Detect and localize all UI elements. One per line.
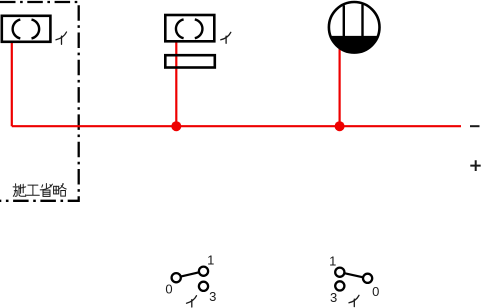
svg-text:1: 1: [207, 252, 214, 267]
kanji 工: [27, 185, 40, 195]
label 施工省略 (hand-drawn kanji): [13, 184, 66, 197]
wire: lamp イ (center) drop to bus: [175, 42, 177, 126]
ballast box under center luminaire: [165, 55, 215, 67]
wire: lamp イ (left) drop to bus: [11, 42, 13, 126]
luminaire イ (center): box with ( ): [165, 15, 214, 41]
luminaire イ (left, inside omitted section): box with ( ): [2, 16, 51, 42]
wire: lamp (right) drop to bus: [339, 46, 341, 126]
plus terminal label: [470, 160, 480, 171]
wire: horizontal bus to source: [12, 125, 461, 127]
three-way switch イ (left): terminals 0,1,3: [172, 267, 209, 291]
label イ (left switch): [187, 296, 197, 307]
svg-text:0: 0: [372, 284, 379, 299]
svg-text:3: 3: [330, 290, 337, 305]
svg-text:0: 0: [165, 282, 172, 297]
minus terminal label: [470, 125, 480, 127]
svg-text:1: 1: [329, 253, 336, 268]
kanji 省: [40, 184, 52, 197]
svg-text:3: 3: [209, 289, 216, 304]
three-way switch イ (right): terminals 1,3,0: [335, 268, 372, 291]
label イ (left lamp): [56, 32, 67, 44]
kanji 略: [54, 184, 67, 196]
construction-omitted boundary (dash-dot box): [0, 2, 79, 201]
junction dot (right): [335, 121, 345, 131]
kanji 施: [13, 184, 26, 197]
junction dot (center): [171, 121, 181, 131]
lamp fixture (right): circle, two bars, filled lower segment: [329, 2, 380, 53]
label イ (right switch): [349, 295, 359, 306]
label イ (center lamp): [221, 32, 231, 43]
